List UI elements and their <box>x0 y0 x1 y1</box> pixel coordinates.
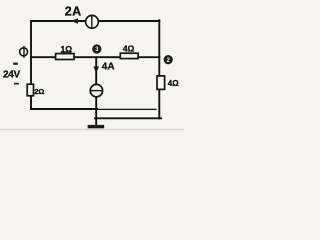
svg-text:24V: 24V <box>3 69 21 80</box>
svg-text:2Ω: 2Ω <box>34 87 44 96</box>
svg-text:2A: 2A <box>65 4 82 18</box>
svg-text:4Ω: 4Ω <box>168 79 179 88</box>
svg-text:4A: 4A <box>102 62 115 73</box>
svg-text:4Ω: 4Ω <box>123 43 135 53</box>
